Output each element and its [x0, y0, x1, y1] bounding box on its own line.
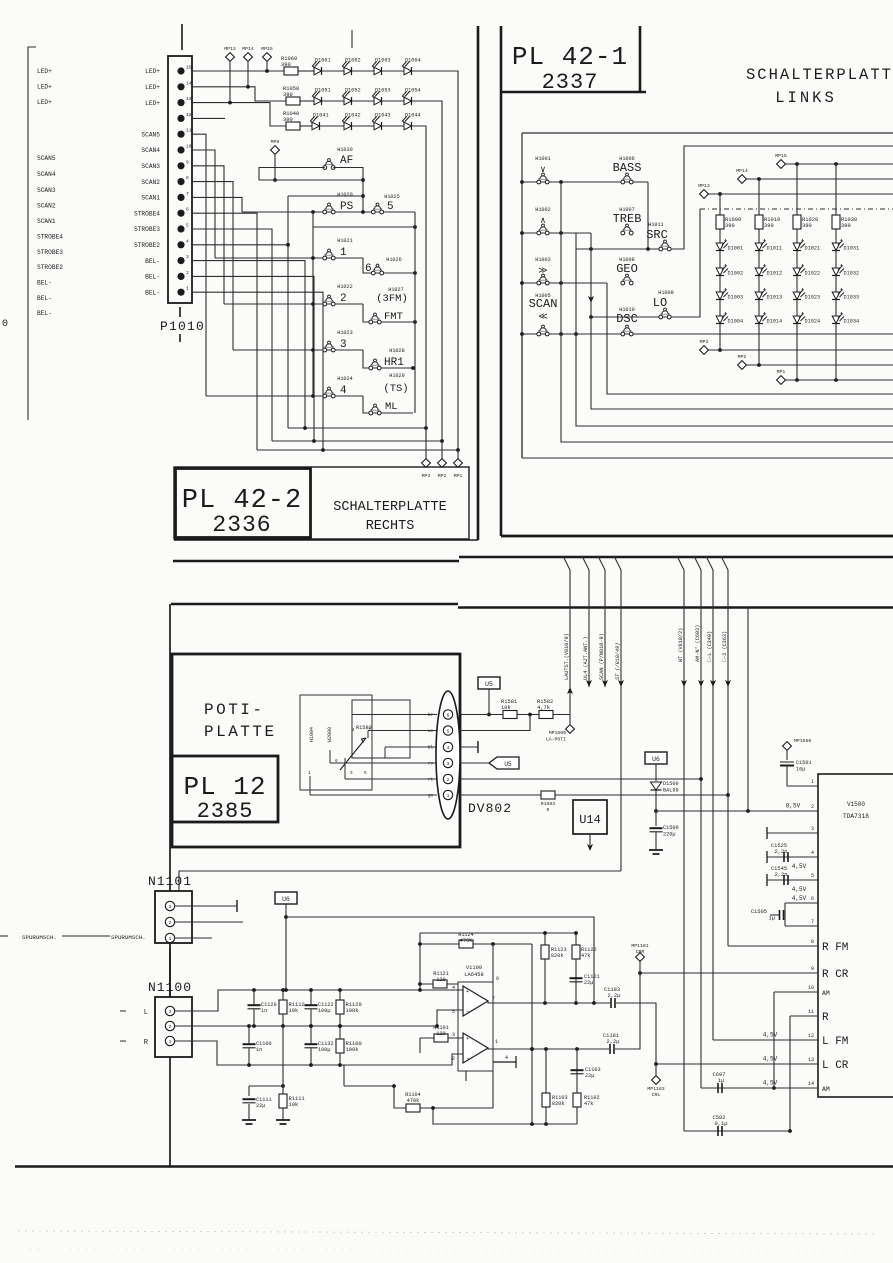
divider line right lower — [458, 606, 893, 608]
svg-text:H1002: H1002 — [535, 207, 551, 213]
wire L bus — [175, 990, 463, 1011]
svg-text:D1054: D1054 — [405, 88, 421, 94]
svg-text:BAL99: BAL99 — [663, 788, 679, 794]
DV802 pin 2 — [443, 774, 452, 783]
wire N1101 pin3 stub — [175, 905, 237, 907]
svg-text:MP1181: MP1181 — [631, 943, 648, 949]
resistor R1121 120 — [433, 980, 447, 988]
wire C502 run — [684, 1130, 790, 1132]
connector P1010 pin net labels — [134, 68, 160, 296]
junction U6 bias — [284, 915, 288, 919]
svg-text:4,5V: 4,5V — [763, 1080, 778, 1087]
svg-text:H1022: H1022 — [337, 284, 353, 290]
resistor R1100 100k — [336, 1039, 362, 1053]
junction C1100 top — [247, 1024, 251, 1028]
wire row1 seg2 — [322, 70, 344, 72]
wire pin10 drop — [773, 992, 775, 1088]
svg-text:11: 11 — [808, 1009, 814, 1015]
left edge tick — [0, 935, 8, 937]
op-amp B triangle — [463, 1033, 488, 1063]
diode D1012 — [755, 264, 782, 277]
wire pin11 riser — [192, 134, 206, 396]
diode D1044 — [402, 113, 421, 131]
junction fb at 433 — [431, 1106, 435, 1110]
PL 42-1 label box — [501, 26, 646, 92]
svg-text:14: 14 — [186, 80, 192, 86]
wire 8,5V rail — [656, 810, 818, 812]
svg-text:D1024: D1024 — [805, 319, 821, 325]
svg-text:3: 3 — [169, 904, 172, 910]
switch H1021 — [323, 238, 353, 260]
svg-text:LED+: LED+ — [145, 84, 160, 91]
capacitor C1121 22u — [570, 978, 583, 982]
net AM-N (C693) arrowhead — [698, 680, 704, 687]
svg-text:390: 390 — [283, 92, 293, 98]
op-amp B pin numbers — [452, 1032, 508, 1062]
svg-text:9: 9 — [186, 159, 189, 165]
svg-text:LED+: LED+ — [37, 99, 52, 106]
op-amp B pin4 stub — [493, 1056, 516, 1068]
C1111 lead top — [248, 1086, 250, 1096]
wire pin10 riser — [192, 150, 215, 258]
wire AF link — [259, 179, 363, 181]
svg-text:4,5V: 4,5V — [763, 1056, 778, 1063]
test point MP3 — [422, 459, 431, 468]
wire net-ST to N1101 — [179, 871, 621, 891]
svg-text:D1062: D1062 — [345, 58, 361, 64]
wire MP3 row — [708, 349, 893, 351]
test point MP2 — [438, 459, 447, 468]
svg-text:9: 9 — [811, 966, 814, 972]
wire pin14 AM — [701, 1087, 818, 1089]
wire U6r stem — [655, 764, 657, 781]
svg-text:rs: rs — [428, 763, 434, 767]
junction fb output B — [530, 1047, 534, 1051]
svg-text:4,5V: 4,5V — [792, 886, 807, 893]
wire fb left rail — [419, 933, 421, 990]
junction bias L bus — [284, 988, 288, 992]
svg-text:1: 1 — [447, 793, 450, 799]
junction PS/left rail — [311, 210, 315, 214]
svg-text:15: 15 — [186, 65, 192, 71]
wire 3-to-HR1 cascade — [363, 350, 413, 368]
capacitor C1111 22u — [243, 1099, 256, 1103]
wire fb to output B — [531, 944, 533, 1124]
junction R1100 bottom — [338, 1063, 342, 1067]
svg-text:D1034: D1034 — [844, 319, 860, 325]
POTI-PLATTE outer box — [172, 654, 460, 847]
wire MP13 row — [708, 193, 893, 195]
diode D1064 — [402, 58, 421, 76]
C1111 lead bottom — [248, 1104, 250, 1120]
svg-text:BEL-: BEL- — [37, 280, 52, 287]
svg-text:D1052: D1052 — [345, 88, 361, 94]
diode D1043 — [372, 113, 391, 131]
svg-text:ws: ws — [428, 730, 434, 734]
diode D1042 — [342, 113, 361, 131]
junction fb rail row — [418, 942, 422, 946]
svg-text:1µ: 1µ — [769, 916, 775, 922]
wire out A to LCR riser — [616, 1003, 656, 1064]
diode D1053 — [372, 88, 391, 106]
op-amp A triangle — [463, 986, 488, 1016]
switch H1006 BASS — [619, 156, 635, 184]
capacitor C1500 220u — [650, 828, 663, 832]
N1100 pin 1 — [165, 1036, 174, 1045]
diode D1001 — [716, 239, 743, 252]
wire pin9 R CR — [640, 972, 818, 974]
junction outB C1103 — [575, 1047, 579, 1051]
wire pin5 riser — [460, 715, 530, 731]
wire opamp B in- riser — [492, 1071, 494, 1108]
net SCAN (P/N810-9) arrowhead — [602, 680, 608, 687]
P1010 pin 15 — [177, 67, 184, 74]
junction MP8/wire — [273, 178, 277, 182]
svg-text:SCAN4: SCAN4 — [37, 171, 56, 178]
wire MP1181 stem — [639, 961, 641, 973]
svg-text:SCAN: SCAN — [529, 297, 558, 311]
svg-text:10k: 10k — [501, 705, 511, 711]
svg-text:SPURUMSCH.: SPURUMSCH. — [111, 934, 146, 941]
net LAUTST (V810/9) — [563, 556, 570, 724]
svg-text:2385: 2385 — [197, 799, 254, 824]
svg-text:3: 3 — [340, 339, 347, 351]
R1111 lead top — [282, 1086, 284, 1095]
wire row2 to rail — [412, 101, 442, 441]
wire pin8 R FM — [728, 945, 818, 947]
wire MP2 return — [272, 440, 442, 442]
P1010 pin 14 — [177, 83, 184, 90]
svg-text:2,2µ: 2,2µ — [608, 993, 621, 999]
svg-text:LINKS: LINKS — [775, 89, 837, 107]
arrow on riser x591 — [588, 296, 594, 303]
svg-text:H1021: H1021 — [337, 238, 353, 244]
diode D1004 — [716, 312, 743, 325]
wire row3 seg1 — [300, 125, 312, 127]
wire MP1 row — [785, 379, 893, 381]
riser TREB-SRC — [575, 233, 577, 249]
wire row2 right sheet — [522, 232, 591, 234]
svg-text:H1001: H1001 — [535, 156, 551, 162]
capacitor C1100 1n — [243, 1044, 256, 1048]
junction AF cascade — [361, 178, 365, 182]
svg-text:8,5V: 8,5V — [786, 803, 801, 810]
wire rail x591 — [591, 233, 893, 409]
diode D1013 — [755, 288, 782, 301]
svg-text:390: 390 — [841, 223, 851, 229]
svg-text:R: R — [822, 1012, 829, 1024]
diode D1041 — [310, 113, 329, 131]
svg-text:100k: 100k — [346, 1047, 359, 1053]
test point MP15 right — [775, 153, 787, 168]
wire MP13 stem — [229, 61, 231, 102]
left sheet right border — [477, 26, 480, 540]
switch H1027 FMT — [369, 313, 381, 324]
capacitor C1181 2,2u — [610, 1044, 614, 1054]
wire pin11 R — [790, 1015, 818, 1017]
switch H1009 LO — [658, 290, 674, 319]
PL 12 label box — [172, 756, 278, 822]
svg-text:14: 14 — [808, 1081, 814, 1087]
bottom sheet bottom border — [15, 1165, 893, 1167]
wire column R1102 — [576, 1049, 578, 1124]
wire U6 stem — [285, 904, 287, 917]
switch H1002 — [535, 207, 551, 235]
potentiometer R1580 wiper arrow — [340, 738, 366, 770]
wire U6 bias run — [286, 917, 594, 1003]
wire pin10 AM — [774, 991, 818, 993]
PL 42-2 label box — [176, 469, 311, 538]
junction RCR — [638, 971, 642, 975]
junction outB R1103 — [544, 1047, 548, 1051]
junction mid bus in- — [435, 1024, 439, 1028]
diode D1031 — [832, 239, 859, 252]
wire pin2 riser — [192, 276, 314, 441]
P1010 pin 7 — [177, 194, 184, 201]
svg-text:N1101: N1101 — [148, 874, 192, 889]
svg-text:5: 5 — [447, 728, 450, 734]
svg-text:SCAN (P/N810-9): SCAN (P/N810-9) — [599, 633, 605, 680]
wire pin4 riser — [192, 244, 288, 246]
junction R1121 rail — [418, 982, 422, 986]
svg-text:V1500: V1500 — [847, 801, 865, 808]
wire R bus — [175, 1041, 463, 1065]
junction LO x591 — [589, 315, 593, 319]
N1100 pin 2 — [165, 1021, 174, 1030]
resistor R1112 10k — [279, 1000, 305, 1014]
junction C1120 bottom — [252, 1024, 256, 1028]
wire rail x607 — [607, 283, 893, 394]
svg-text:8: 8 — [811, 939, 814, 945]
svg-text:3: 3 — [169, 1009, 172, 1015]
svg-text:390: 390 — [764, 223, 774, 229]
junction R1100 top — [338, 1024, 342, 1028]
test point MP1550 — [783, 742, 792, 751]
svg-text:4: 4 — [186, 238, 189, 244]
pot cluster frame 2 — [352, 700, 410, 758]
wire out B to RCR riser — [615, 973, 640, 1049]
svg-text:AM: AM — [822, 1086, 830, 1093]
wire R1121 row — [420, 983, 458, 985]
rail stubs to test points — [426, 428, 458, 459]
test point MP13 right — [698, 183, 710, 198]
diode D1021 — [793, 239, 820, 252]
wire pot to pin3 — [330, 762, 437, 764]
svg-text:D1063: D1063 — [375, 58, 391, 64]
svg-text:7: 7 — [811, 919, 814, 925]
junction FMT right — [413, 320, 417, 324]
svg-text:6: 6 — [496, 976, 499, 982]
capacitor C1505 1u — [780, 910, 784, 920]
junction SRC x591 — [589, 247, 593, 251]
wire pin6 drop — [492, 944, 494, 982]
junction LCR — [654, 1062, 658, 1066]
diode D1500 BAL99 symbol — [651, 782, 662, 790]
svg-text:3: 3 — [811, 826, 814, 832]
sheet label frame — [174, 467, 469, 539]
junction U5/pin6wire — [487, 713, 491, 717]
svg-text:D1041: D1041 — [313, 113, 329, 119]
scan noise bottom 2 — [30, 1249, 860, 1251]
test point MP3 right — [700, 339, 709, 354]
svg-text:1: 1 — [308, 771, 311, 776]
capacitor C1183 2,2u — [611, 998, 615, 1008]
wire bus under PS — [313, 212, 415, 227]
N1101 pin 2 — [165, 917, 174, 926]
op-amp B polarity marks — [466, 1036, 470, 1062]
svg-text:LO: LO — [653, 296, 667, 310]
resistor R1000 390 — [716, 215, 741, 229]
junction R1112 top — [281, 988, 285, 992]
test point MP1 — [454, 459, 463, 468]
junction pin2/AM-N — [699, 777, 703, 781]
svg-text:SCAN4: SCAN4 — [141, 147, 160, 154]
svg-text:SCAN5: SCAN5 — [37, 155, 56, 162]
junction PS/AF — [361, 210, 365, 214]
left edge tick L — [120, 1010, 126, 1012]
test point MP1183 — [652, 1076, 661, 1085]
svg-text:100µ: 100µ — [318, 1008, 330, 1014]
border dash above N1100 — [169, 948, 171, 997]
junction pin11 C502 — [788, 1129, 792, 1133]
svg-text:P1010: P1010 — [160, 319, 205, 334]
junction outB fb — [530, 1047, 534, 1051]
svg-text:D1004: D1004 — [728, 319, 744, 325]
wire row2 seg2 — [322, 100, 344, 102]
wire row 1 switches — [215, 257, 363, 259]
wire R1124 row — [420, 943, 532, 945]
diode D1032 — [832, 264, 859, 277]
wire pin6 stub — [785, 902, 818, 904]
wire BASS out — [647, 182, 649, 249]
svg-text:SCAN5: SCAN5 — [141, 131, 160, 138]
svg-text:STROBE2: STROBE2 — [37, 264, 63, 271]
svg-text:H1029: H1029 — [389, 373, 405, 379]
svg-text:6: 6 — [186, 207, 189, 213]
wire pin4 chain — [767, 856, 818, 858]
N1101 pin 1 — [165, 933, 174, 942]
svg-text:BASS: BASS — [613, 161, 642, 175]
svg-text:100k: 100k — [346, 1008, 359, 1014]
svg-text:3: 3 — [186, 254, 189, 260]
junction row1 x561 — [559, 180, 563, 184]
switch H1029 ML — [369, 404, 381, 415]
wire column R1122 — [575, 933, 577, 1003]
wire LED column R1030 — [835, 164, 837, 380]
svg-text:SCAN1: SCAN1 — [141, 195, 160, 202]
svg-text:∧: ∧ — [540, 216, 545, 226]
diode D1023 — [793, 288, 820, 301]
svg-text:CRR: CRR — [636, 949, 645, 955]
svg-text:SCAN2: SCAN2 — [37, 203, 56, 210]
svg-text:BEL-: BEL- — [37, 295, 52, 302]
svg-text:D1051: D1051 — [315, 88, 331, 94]
junction MP15/row1 — [265, 69, 269, 73]
resistor R1583 0 — [541, 791, 555, 799]
svg-text:L FM: L FM — [822, 1036, 848, 1048]
svg-text:R1583: R1583 — [541, 801, 556, 807]
wire out A — [488, 1001, 610, 1003]
wire AF right — [333, 168, 363, 213]
ground under C1111 — [242, 1120, 256, 1124]
junction pin10 drop — [772, 1086, 776, 1090]
resistor R1122 47k — [572, 945, 580, 959]
wire column R1123 — [544, 933, 546, 1003]
junction rail bus right — [413, 225, 417, 229]
svg-text:STROBE4: STROBE4 — [37, 234, 63, 241]
svg-text:22µ: 22µ — [585, 1073, 594, 1079]
svg-text:6: 6 — [447, 712, 450, 718]
svg-text:H1025: H1025 — [384, 194, 400, 200]
right rail of switch matrix — [414, 212, 416, 413]
svg-text:□-2 (C363): □-2 (C363) — [722, 631, 728, 662]
diode D1061 — [312, 58, 331, 76]
connector P1010 body — [168, 56, 192, 303]
svg-text:D1061: D1061 — [315, 58, 331, 64]
wire row 2 switches — [224, 303, 363, 305]
resistor R1104 470k — [406, 1104, 420, 1112]
switch H1008 GEO — [619, 257, 635, 285]
wire MP15 stem — [266, 61, 268, 71]
junction row3 left — [520, 281, 524, 285]
svg-text:D1013: D1013 — [767, 295, 783, 301]
wire pin14 to R1050 — [192, 87, 287, 101]
wire MP1183 stem — [655, 1064, 657, 1076]
svg-text:(3FM): (3FM) — [376, 293, 408, 305]
P1010 pin 3 — [177, 257, 184, 264]
svg-text:10: 10 — [186, 144, 192, 150]
wire MP1 return — [257, 449, 458, 451]
svg-text:BEL-: BEL- — [145, 274, 160, 281]
wire row3 to rail — [412, 126, 426, 441]
svg-text:2: 2 — [169, 1024, 172, 1030]
R1100 leads — [339, 1026, 341, 1065]
test point MP14 right — [736, 168, 748, 183]
svg-text:470k: 470k — [460, 938, 472, 944]
test point MP1181 — [636, 953, 645, 962]
svg-text:MP8: MP8 — [271, 139, 280, 145]
diode D1014 — [755, 312, 782, 325]
junction pin5 riser — [528, 713, 532, 717]
capacitor C1525 2,2n — [784, 852, 788, 862]
op-amp U1 V1100 LA6458 outline — [458, 982, 493, 1071]
svg-text:820k: 820k — [551, 953, 563, 959]
junction MP2 col — [757, 363, 761, 367]
svg-text:D1032: D1032 — [844, 271, 860, 277]
wire pin13 L CR — [656, 1063, 818, 1065]
wire MP15 row — [785, 163, 893, 165]
P1010 pin 8 — [177, 178, 184, 185]
svg-text:D1023: D1023 — [805, 295, 821, 301]
svg-text:+: + — [466, 1036, 469, 1042]
svg-text:WT (V810/2): WT (V810/2) — [678, 628, 684, 662]
svg-text:D1021: D1021 — [805, 246, 821, 252]
wire row 3 switches — [233, 349, 363, 351]
junction outA R1123 — [543, 1001, 547, 1005]
svg-text:D1044: D1044 — [405, 113, 421, 119]
svg-text:1: 1 — [495, 1039, 498, 1045]
switch H1026 — [365, 257, 402, 275]
svg-text:10k: 10k — [289, 1102, 299, 1108]
svg-text:L CR: L CR — [822, 1060, 849, 1072]
svg-text:H1026: H1026 — [386, 257, 402, 263]
net SCAN (P/N810-9) — [598, 556, 605, 687]
wire pin7 riser — [192, 197, 242, 212]
svg-text:SCHALTERPLATTE: SCHALTERPLATTE — [333, 500, 446, 515]
reference box U14 — [573, 800, 607, 834]
svg-text:0,1µ: 0,1µ — [715, 1121, 728, 1127]
test point MP15 — [261, 46, 273, 61]
